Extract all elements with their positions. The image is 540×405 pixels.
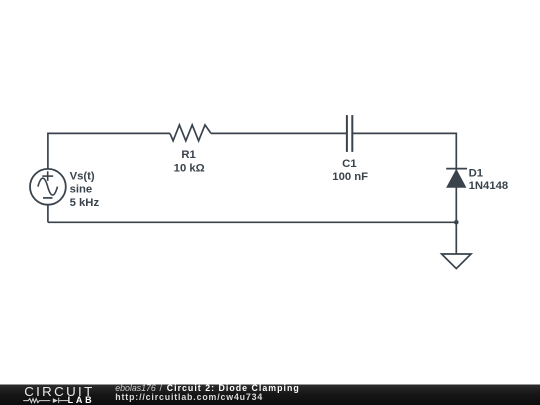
svg-text:R1: R1	[181, 149, 195, 161]
ground	[442, 254, 471, 269]
svg-text:D1: D1	[469, 168, 483, 180]
svg-text:5 kHz: 5 kHz	[70, 197, 100, 209]
wire top-left horizontal	[48, 133, 170, 169]
svg-text:10 kΩ: 10 kΩ	[174, 163, 205, 175]
wire diode to ground	[455, 222, 457, 254]
svg-text:Vs(t): Vs(t)	[70, 170, 95, 182]
wire capacitor to top-right corner and down	[352, 133, 456, 222]
wire source bottom	[47, 205, 49, 223]
svg-text:1N4148: 1N4148	[469, 180, 509, 192]
wire resistor to capacitor	[211, 132, 347, 134]
resistor R1	[170, 125, 211, 141]
svg-text:LAB: LAB	[68, 395, 95, 405]
wire bottom	[48, 221, 456, 223]
svg-text:C1: C1	[342, 158, 356, 170]
svg-text:sine: sine	[70, 184, 93, 196]
footer bar	[0, 383, 540, 405]
diode D1	[446, 169, 467, 187]
logo resistor-diode glyph row	[23, 398, 68, 404]
svg-text:http://circuitlab.com/cw4u734: http://circuitlab.com/cw4u734	[115, 392, 263, 402]
voltage source V1	[30, 169, 66, 205]
node junction dot	[454, 220, 459, 225]
svg-text:100 nF: 100 nF	[332, 171, 368, 183]
capacitor C1	[347, 115, 352, 152]
